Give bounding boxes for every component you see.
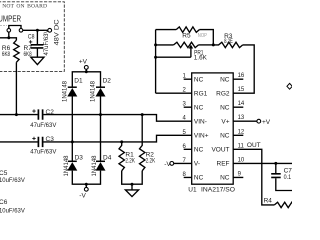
terminal 48V DC (48, 28, 52, 32)
svg-text:+V: +V (262, 119, 271, 126)
resistor R2 (140, 115, 145, 171)
terminal +V right (257, 119, 261, 123)
svg-text:RG2: RG2 (216, 90, 230, 97)
diode D1 (68, 86, 77, 88)
pin stubs left (184, 79, 192, 177)
svg-text:2.2K: 2.2K (146, 158, 156, 165)
svg-text:10: 10 (238, 157, 245, 163)
wire C8 to ground (36, 48, 38, 57)
node -V bracket (85, 183, 88, 186)
svg-text:R5: R5 (182, 33, 191, 40)
svg-text:C6: C6 (0, 199, 8, 206)
svg-text:NOT ON BOARD: NOT ON BOARD (2, 4, 47, 10)
node at left circle base (7, 36, 10, 39)
svg-text:NC: NC (194, 175, 204, 182)
svg-text:16: 16 (238, 73, 245, 79)
svg-text:13: 13 (238, 115, 245, 121)
svg-text:-V: -V (79, 193, 86, 200)
svg-text:NOP: NOP (198, 33, 207, 39)
svg-text:NC: NC (194, 76, 204, 83)
svg-text:1.6K: 1.6K (194, 54, 208, 61)
diode D2 (96, 86, 105, 88)
wire R5 right to junction (199, 30, 213, 45)
dashed box NOT ON BOARD (0, 2, 64, 72)
svg-text:48V DC: 48V DC (53, 19, 60, 45)
svg-text:VIN+: VIN+ (194, 133, 209, 140)
wire R3 to pin15 (233, 45, 254, 93)
wire +V terminal to diode bracket (85, 69, 87, 72)
wire pin2 RG1 (156, 92, 192, 94)
svg-text:6K8: 6K8 (2, 51, 10, 58)
svg-text:C8: C8 (28, 34, 35, 41)
svg-text:NC: NC (220, 175, 230, 182)
svg-text:INA217/SO: INA217/SO (201, 187, 235, 194)
resistor R4 (274, 202, 295, 207)
net1 wire right to IC pin4 (43, 115, 191, 122)
svg-text:0.1: 0.1 (284, 174, 292, 181)
node R7/net1 (15, 113, 18, 116)
svg-text:2.2K: 2.2K (125, 158, 135, 165)
svg-text:1N4148: 1N4148 (64, 155, 70, 177)
svg-text:10uF/63V: 10uF/63V (0, 207, 25, 214)
svg-text:NC: NC (220, 133, 230, 140)
svg-text:47uF/63V: 47uF/63V (30, 149, 56, 155)
svg-text:VIN-: VIN- (194, 118, 207, 125)
diode D4 (96, 160, 105, 162)
wire D3 top lead (71, 142, 73, 161)
node D2/net1 (99, 113, 102, 116)
resistor R3 (213, 42, 242, 47)
svg-text:NC: NC (220, 76, 230, 83)
svg-text:1N4148: 1N4148 (62, 80, 68, 102)
capacitor C2 (38, 109, 42, 119)
wire R7 down to net1 (15, 62, 17, 114)
op-amp U1 INA217 box (192, 73, 234, 184)
jumper terminal circle right (19, 29, 23, 33)
node C7 (274, 162, 277, 165)
svg-text:D2: D2 (103, 78, 112, 85)
svg-text:NC: NC (194, 147, 204, 154)
jumper J1 bracket wire (9, 26, 21, 29)
wire R1/R2 bottom bracket (122, 171, 143, 184)
svg-text:15: 15 (238, 87, 245, 93)
wire ground stem (131, 184, 133, 190)
svg-text:D4: D4 (103, 154, 112, 161)
gain loop left vertical (155, 30, 157, 94)
terminal +V top (84, 66, 88, 70)
svg-text:OUT: OUT (247, 142, 261, 149)
svg-text:47uF/63V: 47uF/63V (44, 29, 50, 55)
svg-text:1N4148: 1N4148 (91, 80, 97, 102)
capacitor C7 (275, 163, 277, 173)
wire jumper to 48V terminal (23, 29, 48, 31)
wire pin11 VOUT (233, 149, 274, 205)
wire R5 branch top (156, 29, 177, 31)
node +V bracket (85, 70, 88, 73)
terminal -V left of pin7 (170, 162, 174, 166)
svg-text:D3: D3 (75, 154, 84, 161)
wire wiper to left vertical (156, 56, 191, 58)
svg-text:RG1: RG1 (194, 90, 208, 97)
svg-text:C5: C5 (0, 170, 8, 177)
wire diode bottom bracket -V (72, 171, 100, 185)
jumper terminal circle left (7, 29, 11, 33)
node R5/R3 junction (212, 43, 215, 46)
svg-text:1N4148: 1N4148 (92, 155, 98, 177)
node ground bracket (131, 183, 134, 186)
svg-text:NC: NC (194, 104, 204, 111)
ground under R1/R2 (125, 190, 138, 197)
node PR1 left (154, 43, 157, 46)
capacitor C8 (31, 45, 44, 48)
svg-text:V-: V- (194, 161, 200, 168)
svg-text:JUMPER: JUMPER (0, 14, 21, 23)
node wiper/left vertical (154, 56, 157, 59)
node R2/net1 (141, 113, 144, 116)
wire D1 down to net2 (71, 97, 73, 142)
terminal -V bottom (84, 187, 88, 191)
wire faint stub left of jumper (0, 24, 7, 26)
svg-text:47uF/63V: 47uF/63V (30, 123, 56, 129)
net2 wire right to IC pin5 (43, 135, 191, 142)
wire PR1 branch (156, 44, 174, 46)
svg-text:U1: U1 (188, 187, 197, 194)
wire D2 down to D4 (100, 97, 102, 162)
svg-text:R4: R4 (264, 198, 273, 205)
pin stubs right (233, 79, 243, 177)
PR1 wiper arrow (190, 47, 192, 58)
svg-text:D1: D1 (74, 78, 83, 85)
wire pin7 V- (174, 162, 192, 164)
wire diode top bracket (72, 72, 100, 87)
svg-text:14: 14 (238, 101, 245, 107)
svg-text:VOUT: VOUT (211, 147, 229, 154)
trimmer PR1 (174, 42, 199, 47)
off-page diamond connector (287, 83, 292, 89)
svg-text:8.2E: 8.2E (224, 38, 233, 45)
net2 wire left (0, 141, 38, 143)
svg-text:11: 11 (238, 143, 245, 149)
svg-text:12: 12 (238, 129, 245, 135)
node R1/net2 (120, 140, 123, 143)
svg-text:+V: +V (79, 59, 88, 66)
wire 48V junction down to C8 (36, 30, 38, 44)
svg-text:NC: NC (220, 104, 230, 111)
svg-text:V+: V+ (221, 118, 229, 125)
wire left circle down to junction (8, 32, 10, 38)
wire pin10 REF (233, 162, 292, 164)
svg-text:-V: -V (164, 161, 171, 168)
net1 wire left (0, 114, 38, 116)
ground under C8 (31, 57, 44, 64)
node phantom rail junction (36, 29, 39, 32)
wire -V stem (85, 184, 87, 187)
resistor R1 (119, 142, 124, 171)
resistor R5 (176, 27, 199, 32)
node D1/net2 (71, 140, 74, 143)
svg-text:REF: REF (217, 161, 230, 168)
resistor R7 (14, 40, 19, 62)
svg-text:10uF/63V: 10uF/63V (0, 177, 25, 184)
wire pin13 V+ (233, 120, 257, 122)
wire phantom feed from left edge (0, 38, 16, 40)
capacitor C3 (38, 137, 42, 147)
diode D3 (68, 160, 77, 162)
